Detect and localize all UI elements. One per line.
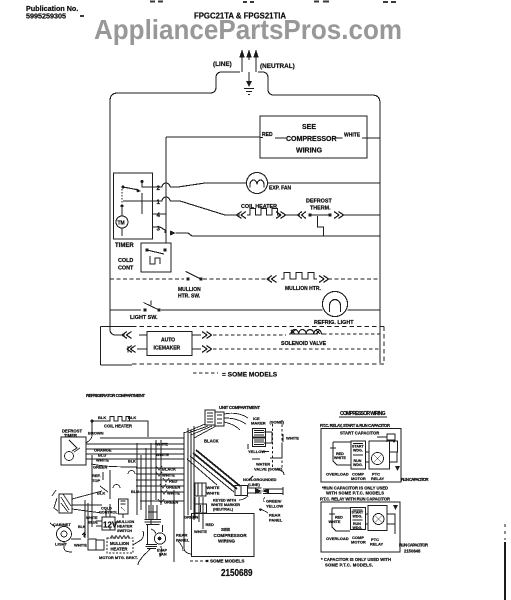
central vertical wire bundle (left group) bbox=[137, 440, 161, 525]
wires from top connector to ice maker bbox=[224, 413, 248, 430]
svg-text:WIRING: WIRING bbox=[296, 148, 323, 155]
svg-text:WHITE: WHITE bbox=[207, 491, 220, 496]
timer contacts bbox=[123, 187, 139, 190]
svg-text:YELLOW: YELLOW bbox=[248, 449, 265, 454]
svg-text:CABINET: CABINET bbox=[53, 522, 71, 527]
svg-text:RUN CAPACITOR: RUN CAPACITOR bbox=[399, 543, 428, 548]
svg-text:WHITE: WHITE bbox=[74, 543, 87, 548]
svg-text:VALVE (SOME): VALVE (SOME) bbox=[254, 467, 283, 472]
wires right from connector bbox=[248, 487, 284, 495]
auto icemaker box bbox=[147, 332, 192, 356]
svg-text:SOME P.T.C. MODELS.: SOME P.T.C. MODELS. bbox=[325, 563, 373, 568]
svg-text:WHITE: WHITE bbox=[194, 529, 207, 534]
svg-text:BLACK: BLACK bbox=[162, 467, 176, 472]
connector arrows left of coil heater bbox=[237, 212, 247, 219]
svg-text:WDG.: WDG. bbox=[353, 515, 363, 519]
svg-text:RED: RED bbox=[206, 522, 215, 527]
svg-text:(NEUTRAL): (NEUTRAL) bbox=[260, 63, 295, 70]
svg-text:2: 2 bbox=[157, 185, 161, 192]
svg-text:YELLOW: YELLOW bbox=[266, 504, 283, 509]
svg-text:RELAY: RELAY bbox=[371, 476, 385, 481]
wires from defrost timer to center bbox=[86, 438, 184, 459]
svg-text:COIL HEATER: COIL HEATER bbox=[104, 424, 132, 429]
timer box bbox=[114, 173, 153, 239]
svg-text:(LINE): (LINE) bbox=[248, 482, 260, 487]
power plug prongs bbox=[242, 54, 256, 84]
svg-text:COMPRESSOR: COMPRESSOR bbox=[214, 533, 248, 538]
svg-text:MOTOR: MOTOR bbox=[351, 476, 366, 481]
svg-text:MULLION: MULLION bbox=[110, 541, 129, 546]
terminal stubs with bumps over feed wire bbox=[152, 183, 170, 187]
see compressor wiring box bbox=[260, 116, 367, 158]
legend some models bbox=[193, 372, 218, 374]
svg-text:BROWN: BROWN bbox=[88, 431, 104, 436]
svg-text:HEATER: HEATER bbox=[111, 547, 128, 552]
svg-text:ICEMAKER: ICEMAKER bbox=[154, 346, 181, 352]
svg-text:LIGHT: LIGHT bbox=[55, 542, 68, 547]
box2 inner start winding box bbox=[351, 508, 366, 530]
exp fan motor bbox=[247, 173, 268, 194]
ice maker dashed enclosure bbox=[273, 420, 283, 468]
svg-text:SEE: SEE bbox=[302, 124, 316, 131]
wires into compressor box bbox=[174, 490, 203, 562]
svg-text:RED: RED bbox=[335, 516, 343, 520]
box2 ptc relay box bbox=[368, 506, 387, 531]
compressor box (lower) bbox=[192, 514, 255, 557]
svg-text:MOTOR MTG. BRKT.: MOTOR MTG. BRKT. bbox=[99, 555, 138, 560]
svg-text:RED: RED bbox=[262, 132, 273, 138]
svg-text:WHITE: WHITE bbox=[334, 456, 346, 460]
wire exp fan row bbox=[170, 183, 246, 187]
svg-text:AUTO: AUTO bbox=[161, 338, 175, 344]
svg-text:BLACK: BLACK bbox=[204, 439, 219, 444]
box1 inner start winding box bbox=[351, 441, 366, 469]
icemaker top wire bbox=[116, 334, 201, 336]
main outer box top rail with plug bump bbox=[110, 72, 240, 101]
wire from terminal 3 bbox=[160, 227, 165, 233]
neutral connector blocks bbox=[195, 483, 206, 496]
svg-text:SEE: SEE bbox=[221, 527, 230, 532]
svg-text:LIGHT SW.: LIGHT SW. bbox=[130, 315, 158, 321]
svg-text:MULLION: MULLION bbox=[117, 520, 135, 524]
keyed-with leader bbox=[239, 496, 248, 500]
svg-text:COMPRESSOR WIRING: COMPRESSOR WIRING bbox=[340, 411, 386, 417]
svg-text:TIMER: TIMER bbox=[64, 433, 77, 438]
svg-text:RELAY: RELAY bbox=[370, 542, 384, 547]
svg-text:MULLION: MULLION bbox=[178, 287, 201, 293]
svg-text:* CAPACITOR IS ONLY USED WITH: * CAPACITOR IS ONLY USED WITH bbox=[321, 557, 391, 562]
svg-text:SOLENOID VALVE: SOLENOID VALVE bbox=[281, 341, 327, 347]
svg-text:TM: TM bbox=[118, 221, 125, 227]
cold control (lower) bbox=[119, 499, 129, 514]
main outer box left rail bbox=[110, 101, 116, 335]
connector blocks near cabinet light bbox=[88, 539, 96, 550]
some models dashes under box bbox=[190, 560, 208, 562]
mullion heater switch row (dashed, some models) bbox=[110, 278, 184, 280]
green/yellow bracket bbox=[263, 497, 266, 502]
svg-text:5995259305: 5995259305 bbox=[26, 12, 66, 21]
svg-text:CONTROL: CONTROL bbox=[99, 511, 118, 515]
scan artifact vertical line bottom right bbox=[504, 524, 506, 600]
svg-text:P.T.C. RELAY WITH RUN CAPACITO: P.T.C. RELAY WITH RUN CAPACITOR bbox=[320, 497, 390, 502]
svg-text:WHITE: WHITE bbox=[156, 452, 169, 457]
svg-text:= SOME MODELS: = SOME MODELS bbox=[206, 559, 244, 564]
svg-text:WHITE: WHITE bbox=[155, 442, 168, 447]
ice maker connector blocks bbox=[253, 429, 266, 438]
svg-text:P.T.C. RELAY, START & RUN CAPA: P.T.C. RELAY, START & RUN CAPACITOR bbox=[320, 423, 390, 428]
some-models dashed enclosure bbox=[101, 327, 133, 366]
svg-text:PANEL: PANEL bbox=[176, 538, 190, 543]
brown wire down from coil heater bbox=[86, 421, 92, 443]
svg-text:START CAPACITOR: START CAPACITOR bbox=[340, 431, 379, 436]
svg-text:WHITE: WHITE bbox=[344, 133, 361, 139]
unit compartment connector bbox=[205, 410, 215, 425]
svg-text:HEATER: HEATER bbox=[117, 525, 133, 529]
svg-text:EXP. FAN: EXP. FAN bbox=[269, 186, 292, 192]
svg-text:2150689: 2150689 bbox=[221, 568, 253, 579]
svg-text:WHITE: WHITE bbox=[207, 485, 220, 490]
scan edge ticks top bbox=[80, 2, 396, 17]
svg-text:COLD: COLD bbox=[118, 258, 133, 264]
rear panel (center) leader bbox=[178, 541, 183, 551]
rear panel arrow (right) bbox=[259, 508, 262, 511]
svg-text:RED: RED bbox=[169, 479, 178, 484]
svg-text:WHITE: WHITE bbox=[96, 458, 109, 463]
svg-text:(SOME): (SOME) bbox=[270, 420, 285, 425]
svg-text:BLK: BLK bbox=[128, 415, 136, 420]
svg-text:GREEN: GREEN bbox=[164, 500, 178, 505]
svg-text:UNIT COMPARTMENT: UNIT COMPARTMENT bbox=[219, 405, 260, 410]
svg-text:WHITE: WHITE bbox=[286, 436, 299, 441]
box2 overload + wires bbox=[329, 508, 395, 534]
chevron connector marks on horizontal wires bbox=[136, 468, 184, 501]
wires from light switch right bbox=[72, 505, 102, 513]
inner vertical feed wire bbox=[165, 137, 167, 243]
wire red row to compressor box bbox=[166, 137, 380, 138]
evap fan assembly bbox=[148, 505, 157, 519]
svg-text:OVERLOAD: OVERLOAD bbox=[326, 536, 349, 541]
light switch (lower) bbox=[59, 494, 72, 513]
svg-text:SWITCH: SWITCH bbox=[117, 529, 132, 533]
svg-text:1: 1 bbox=[157, 199, 161, 206]
svg-text:WDG.: WDG. bbox=[353, 526, 363, 530]
top rail right of plug bbox=[258, 72, 380, 103]
connector arrows right of coil heater bbox=[276, 212, 286, 219]
svg-text:WHITE: WHITE bbox=[329, 520, 341, 524]
svg-text:RUN CAPACITOR: RUN CAPACITOR bbox=[401, 477, 429, 482]
svg-text:HTR. SW.: HTR. SW. bbox=[178, 294, 201, 300]
svg-text:WHITE: WHITE bbox=[162, 473, 175, 478]
svg-text:COMPRESSOR: COMPRESSOR bbox=[286, 136, 337, 143]
refrigerator light bulb bbox=[323, 292, 348, 317]
timer motor TM bbox=[116, 216, 128, 228]
svg-text:WDG.: WDG. bbox=[353, 449, 363, 453]
box1 motor circle bbox=[372, 453, 384, 465]
svg-text:WDG.: WDG. bbox=[353, 463, 363, 467]
svg-text:(LINE): (LINE) bbox=[213, 61, 232, 68]
coil heater element bbox=[247, 209, 281, 216]
central vertical wire bundle (right group) bbox=[184, 426, 194, 548]
svg-text:REFRIGERATOR COMPARTMENT: REFRIGERATOR COMPARTMENT bbox=[86, 393, 145, 398]
defrost thermostat bbox=[298, 212, 307, 219]
svg-text:2150848: 2150848 bbox=[404, 549, 421, 554]
ground symbol bbox=[244, 89, 254, 95]
svg-text:GREEN: GREEN bbox=[166, 485, 180, 490]
right rail bbox=[379, 103, 381, 363]
mullion heater element bbox=[267, 276, 277, 283]
svg-text:REFRIG. LIGHT: REFRIG. LIGHT bbox=[314, 320, 354, 326]
yellow wire bbox=[248, 444, 282, 458]
wire coil heater row bbox=[170, 201, 240, 215]
12V box bbox=[102, 517, 115, 530]
coil heater (lower) bbox=[91, 421, 148, 437]
defrost timer (lower) box bbox=[61, 437, 86, 465]
svg-text:THERM.: THERM. bbox=[310, 206, 331, 212]
svg-text:TOP: TOP bbox=[92, 478, 100, 483]
svg-text:= SOME MODELS: = SOME MODELS bbox=[222, 372, 278, 379]
svg-text:WITH SOME P.T.C. MODELS: WITH SOME P.T.C. MODELS bbox=[326, 491, 384, 496]
box1 outline bbox=[321, 429, 401, 483]
light switch row bbox=[110, 309, 141, 311]
svg-text:BLK: BLK bbox=[98, 415, 106, 420]
svg-text:(NEUTRAL): (NEUTRAL) bbox=[213, 508, 234, 512]
svg-text:MOTOR: MOTOR bbox=[351, 540, 366, 545]
svg-text:KEYED WITH: KEYED WITH bbox=[213, 499, 236, 503]
big diagonal bundle down-right bbox=[193, 450, 240, 489]
cabinet light bbox=[57, 527, 72, 542]
svg-text:12V: 12V bbox=[103, 521, 118, 530]
solenoid valve coil bbox=[289, 330, 323, 335]
svg-text:FAN: FAN bbox=[159, 553, 167, 557]
svg-text:DEFROST: DEFROST bbox=[306, 199, 332, 205]
svg-text:WIRING: WIRING bbox=[218, 539, 236, 544]
box2 motor circle bbox=[373, 514, 384, 525]
mullion heater dashed box bbox=[107, 538, 133, 553]
svg-text:CONT: CONT bbox=[118, 266, 134, 272]
icemaker bottom wire bbox=[137, 348, 201, 350]
svg-text:PANEL: PANEL bbox=[269, 518, 283, 523]
svg-text:BLK: BLK bbox=[128, 460, 136, 464]
svg-text:MAKER: MAKER bbox=[251, 421, 266, 426]
green wire down-left bbox=[91, 464, 137, 467]
start capacitor symbol bbox=[377, 434, 395, 442]
water valve lines bbox=[252, 459, 284, 475]
svg-text:COIL HEATER: COIL HEATER bbox=[241, 204, 277, 210]
box2 outline bbox=[321, 502, 400, 552]
svg-text:AppliancePartsPros.com: AppliancePartsPros.com bbox=[94, 14, 402, 45]
svg-text:TIMER: TIMER bbox=[115, 243, 134, 249]
diagonal wires from connector down-left to bundle bbox=[184, 424, 216, 438]
box1 overload + wires bbox=[330, 441, 398, 465]
box1 ptc relay box bbox=[369, 441, 390, 469]
svg-text:4: 4 bbox=[157, 212, 161, 219]
svg-text:WHITE MARKER: WHITE MARKER bbox=[211, 503, 240, 507]
svg-text:MULLION HTR.: MULLION HTR. bbox=[285, 286, 321, 292]
svg-text:OVERLOAD: OVERLOAD bbox=[326, 472, 349, 477]
cold control box bbox=[141, 243, 171, 272]
